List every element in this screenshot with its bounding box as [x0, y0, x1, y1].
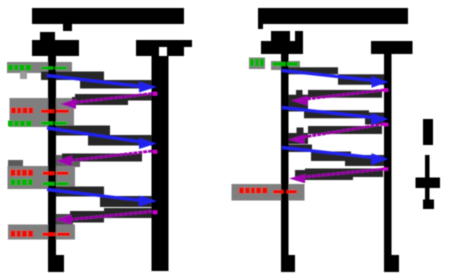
blue data arrow A3 right: [282, 148, 388, 165]
row3 green dash left: [41, 122, 67, 126]
row2 red label left: [11, 108, 33, 114]
red dash right: [273, 190, 297, 194]
shadow boxes arrow A2 left: [56, 126, 152, 146]
left diagram sender timeline foot: [55, 255, 64, 272]
blue data arrow A3 left: [47, 190, 157, 207]
RTT crossbar: [416, 178, 441, 189]
shadow box ack P2 left: [62, 154, 142, 162]
purple ack arrow P1 right: [291, 89, 388, 106]
left diagram receiver bar: [152, 56, 169, 271]
row4 red label left: [11, 170, 34, 177]
row1 green label left: [8, 65, 31, 71]
RTT vertical arrow line: [425, 155, 430, 209]
grey chunk below row1 label left: [20, 72, 27, 80]
grey label box rows2-3 left: [10, 98, 75, 127]
red label right: [239, 188, 267, 194]
shadow boxes arrow A1 left: [41, 72, 152, 89]
right diagram receiver header: [371, 41, 413, 54]
right diagram sender timeline foot: [287, 255, 295, 272]
RTT bottom block: [423, 200, 434, 210]
shadow boxes ack P2 right: [281, 126, 382, 144]
dark label patch left of P2 head: [8, 160, 23, 169]
shadow box ack P1 left: [72, 94, 154, 105]
grey patch behind P2 head left: [54, 155, 80, 167]
shadow boxes arrow A3 right: [282, 145, 390, 167]
right diagram sender timeline: [281, 54, 289, 272]
grey label box green row right: [249, 58, 300, 71]
purple ack arrow P3 right: [289, 168, 388, 184]
grey label box red row right: [232, 184, 305, 201]
right diagram receiver timeline: [384, 54, 392, 272]
green label right: [250, 59, 264, 67]
shadow boxes arrow A2 right: [282, 105, 390, 125]
dark patch below P3 head left: [55, 214, 73, 225]
row7 red dash left: [43, 233, 71, 237]
right diagram sender header: [261, 31, 303, 54]
grey label box row1 left: [7, 62, 72, 73]
row1 green dash left: [41, 67, 67, 70]
purple ack arrow P2 left: [56, 150, 157, 167]
blue data arrow A1 right: [282, 71, 388, 88]
shadow box ack P3 left: [70, 208, 152, 223]
RTT label block: [423, 119, 433, 145]
blue data arrow A2 right: [282, 108, 388, 125]
left diagram sender timeline: [48, 56, 56, 272]
right diagram title: [258, 8, 408, 29]
grey label box rows4-5 left: [8, 166, 76, 189]
row7 red label left: [11, 231, 34, 238]
blue data arrow A2 left: [47, 128, 157, 149]
left diagram title: [32, 8, 184, 31]
grey label box row7 left: [8, 225, 75, 240]
green dash right: [273, 62, 299, 66]
shadow boxes arrow A3 left: [51, 187, 152, 208]
left diagram receiver header: [136, 40, 192, 56]
purple ack arrow P3 left: [55, 211, 157, 225]
row2 red dash left: [41, 110, 69, 114]
shadow boxes ack P3 right: [295, 169, 383, 181]
row3 green label left: [8, 121, 32, 127]
left diagram sender header: [32, 32, 79, 56]
blue data arrow A1 left: [47, 76, 157, 93]
row5 green label left: [11, 179, 33, 186]
row4 red dash left: [43, 172, 69, 176]
purple ack arrow P2 right: [288, 123, 388, 144]
row5 green dash left: [43, 182, 69, 186]
right diagram receiver timeline foot: [391, 255, 399, 272]
shadow boxes ack P1 right: [281, 90, 382, 106]
purple ack arrow P1 left: [60, 92, 157, 109]
shadow boxes arrow A1 right: [282, 67, 390, 85]
